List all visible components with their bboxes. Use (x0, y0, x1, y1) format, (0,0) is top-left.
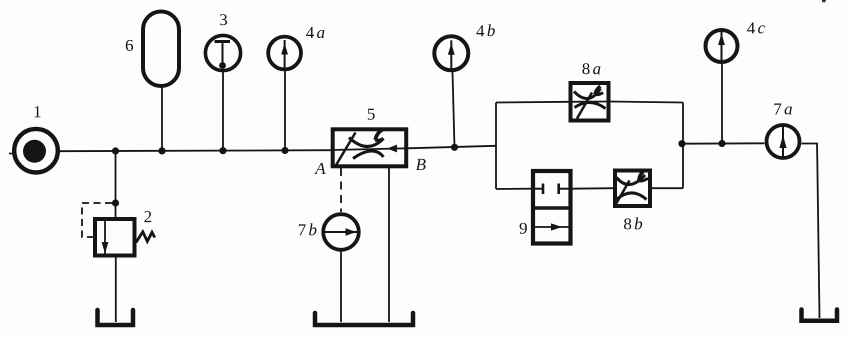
thermometer 3 (205, 35, 240, 150)
label 6 (126, 40, 133, 51)
node junction gauge 4c (718, 140, 725, 147)
wire main line (59, 150, 333, 151)
wire 7a to right tank (802, 144, 820, 319)
tank below relief valve (98, 310, 134, 325)
label 2 (144, 211, 151, 222)
wire loop left vertical (495, 103, 497, 190)
wire valve 5 to loop (407, 146, 496, 149)
label 3 (220, 14, 227, 25)
wire lower branch right (651, 187, 683, 189)
label 8b (624, 217, 642, 229)
accumulator 6 (143, 12, 179, 152)
shut-off valve 9 (533, 171, 571, 244)
wire 7b to tank (340, 252, 342, 323)
label 4c (747, 22, 765, 33)
node junction thermometer (219, 147, 226, 154)
pilot line (dashed) (82, 203, 112, 237)
pump U1 (9, 129, 58, 173)
label 5 (368, 109, 375, 120)
throttle valve 8a (569, 83, 609, 121)
relief valve 2 (95, 219, 155, 256)
scan speck (822, 0, 826, 3)
label 1 (35, 106, 41, 117)
flow meter 7b (323, 214, 359, 250)
tank bottom right (802, 310, 838, 321)
flow control valve 5 (332, 129, 407, 166)
wire loop right vertical (682, 103, 684, 189)
label 4b (476, 24, 494, 36)
wire upper branch right (610, 102, 683, 103)
node junction gauge 4b (451, 144, 458, 151)
throttle valve 8b (615, 171, 651, 207)
node loop exit junction (678, 140, 685, 147)
wire lower branch middle (572, 187, 615, 190)
wire relief valve to tank (115, 256, 117, 323)
label 9 (520, 223, 527, 234)
wire drop to relief valve (115, 151, 117, 218)
label 8a (582, 63, 600, 74)
gauge 4c (706, 30, 738, 144)
label 7a (774, 104, 792, 115)
wire port B drain to tank (388, 168, 390, 322)
wire loop exit to 7a (683, 142, 765, 144)
label A (314, 163, 325, 174)
gauge 4a (268, 37, 301, 151)
gauge 4b (434, 36, 468, 147)
wire lower branch left (496, 188, 532, 190)
flow meter 7a (767, 125, 800, 158)
tank below valve 5 (315, 313, 413, 325)
node junction gauge 4a (281, 147, 288, 154)
node pilot junction (112, 199, 119, 206)
label B (416, 159, 426, 170)
label 4a (306, 27, 324, 38)
node junction accumulator (158, 147, 165, 154)
wire upper branch left (496, 101, 569, 104)
node junction to relief valve (112, 147, 119, 154)
dashed drain line from port A (340, 168, 342, 212)
label 7b (299, 223, 317, 235)
